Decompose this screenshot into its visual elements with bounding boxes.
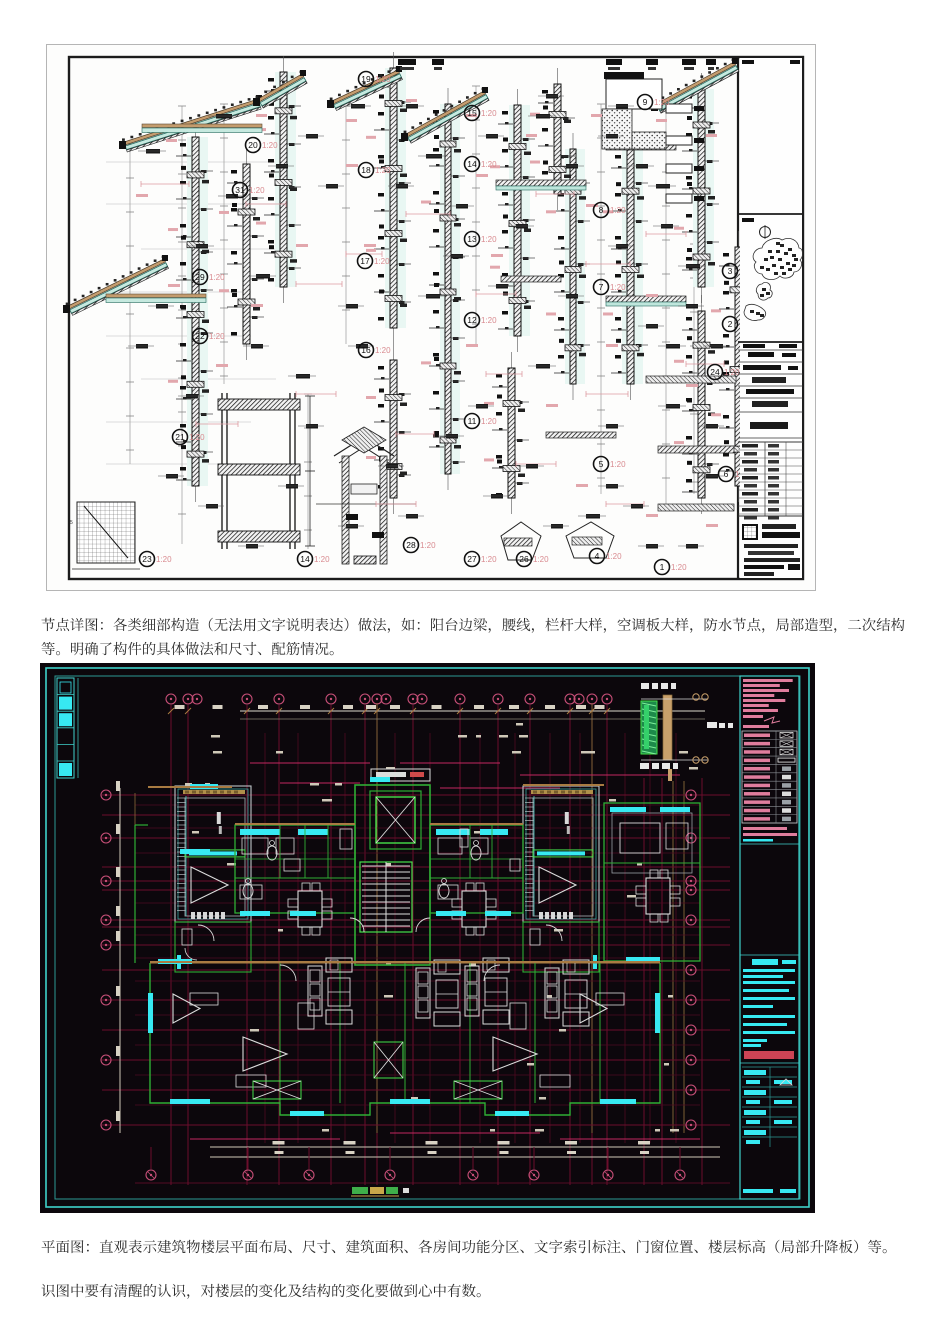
- sheet info table: [742, 1066, 797, 1068]
- sheet inner frame: [69, 57, 803, 579]
- top-right section detail: [640, 683, 733, 781]
- chimney detail: [316, 427, 416, 564]
- detail label 24: [708, 365, 741, 380]
- detail label 6: [719, 467, 752, 482]
- legend table: [742, 731, 797, 823]
- wall section strip at x=652: [674, 73, 719, 303]
- shaft x-box: [374, 1042, 403, 1078]
- slab detail B: [606, 144, 676, 150]
- horizontal guides: [106, 161, 296, 163]
- detail label 18: [359, 163, 392, 178]
- slab detail D: [606, 296, 686, 302]
- detail label 11: [465, 414, 498, 429]
- kitchen right: [430, 825, 523, 913]
- tan wall accents: [235, 823, 355, 825]
- detail label 21: [173, 430, 206, 445]
- detail label 29: [193, 270, 226, 285]
- wall section strip at x=524: [546, 133, 590, 400]
- bed symbol: [539, 867, 576, 903]
- detail label 16: [359, 343, 392, 358]
- wall section strip at x=197: [219, 148, 264, 360]
- detail label 14: [465, 157, 498, 172]
- sheet outer border: [47, 45, 816, 591]
- guide line: [597, 104, 605, 494]
- annotation blobs: [146, 149, 160, 154]
- detail label 20: [246, 138, 279, 153]
- guide line: [472, 86, 480, 344]
- guide line: [178, 106, 186, 544]
- roof slope detail: [401, 87, 489, 143]
- sheet title red: [744, 1051, 794, 1059]
- bath fixtures: [243, 884, 253, 898]
- wardrobe/bed extras: [190, 993, 218, 1005]
- bottom grid bubbles: [146, 1147, 685, 1180]
- revision bars: [740, 954, 799, 956]
- wall section strip at x=652: [674, 295, 719, 514]
- shaft x-box: [253, 1081, 301, 1099]
- detail label 7: [594, 280, 627, 295]
- slab detail G: [546, 432, 616, 438]
- roof slope detail: [63, 255, 169, 315]
- title rows: [738, 349, 803, 351]
- left wing wall: [135, 824, 148, 826]
- roof slope detail: [253, 70, 307, 108]
- guide line: [220, 104, 228, 384]
- foundation detail 9: [606, 79, 662, 109]
- detail label 31: [233, 183, 266, 198]
- room partitions: [235, 825, 523, 878]
- bathroom under right tower: [523, 922, 599, 972]
- guide line: [126, 144, 134, 464]
- lower floor outline: [150, 963, 660, 1115]
- detail label 12: [465, 313, 498, 328]
- title block: [740, 676, 799, 1199]
- central stair core walls: [355, 785, 430, 965]
- left legend ladder: [57, 678, 74, 778]
- roof slope detail: [327, 66, 403, 111]
- title table: [738, 441, 803, 443]
- top grid bubbles: [166, 694, 612, 704]
- plan inner cyan border: [55, 676, 800, 1199]
- company block: [742, 524, 758, 540]
- ladder wall detail: [218, 393, 315, 549]
- eave band: [142, 124, 262, 128]
- detail label 4: [590, 549, 623, 564]
- guide line: [304, 394, 312, 549]
- right wing rooms: [604, 803, 700, 961]
- dining table: [288, 883, 332, 935]
- stair flight: [360, 862, 412, 932]
- sofa group: [545, 960, 589, 1026]
- left dimension line: [119, 788, 121, 1133]
- left grid bubbles: [101, 790, 111, 1130]
- wall section strip at x=399: [421, 88, 465, 490]
- plan outer cyan border: [46, 668, 809, 1207]
- small detail b: [566, 522, 614, 558]
- kitchen left: [235, 825, 355, 913]
- detail label 17: [358, 254, 391, 269]
- guide line: [662, 104, 670, 504]
- vertical grid lines: [171, 705, 702, 1185]
- wall section strip at x=462: [484, 352, 529, 514]
- top dimension line: [240, 710, 705, 712]
- shaft x-box: [376, 797, 415, 843]
- detail sheet image (white CAD drawing): [46, 44, 816, 591]
- detail label 1: [655, 560, 688, 575]
- detail label 8: [594, 203, 627, 218]
- detail label 5: [594, 457, 627, 472]
- wall section strip at x=344: [366, 344, 411, 514]
- detail label 27: [465, 552, 498, 567]
- slab detail C: [658, 446, 734, 453]
- bed symbol: [173, 994, 200, 1023]
- roof slope detail: [651, 58, 739, 113]
- tower core: [523, 786, 599, 922]
- notes pink text: [743, 679, 793, 682]
- stair label box: [371, 769, 430, 781]
- sofa group: [308, 958, 352, 1024]
- detail label 3: [723, 264, 756, 279]
- bed symbol: [580, 994, 607, 1023]
- tower core: [175, 786, 251, 922]
- door swings: [350, 918, 364, 932]
- slab detail F: [501, 276, 561, 282]
- detail label 26: [517, 552, 550, 567]
- bed symbol: [191, 867, 228, 903]
- detail label 19: [359, 72, 392, 87]
- slab detail A: [496, 180, 586, 186]
- bed symbol: [493, 1037, 537, 1071]
- small detail a: [501, 522, 541, 560]
- top edge details: [398, 59, 416, 65]
- wall section strip at x=508: [530, 68, 575, 210]
- wall section strip at x=581: [603, 133, 648, 400]
- detail label 22: [193, 329, 226, 344]
- title block divider: [737, 57, 739, 579]
- dining table: [452, 883, 496, 935]
- detail label 23: [140, 552, 173, 567]
- paragraph: node detail description: [42, 618, 905, 633]
- sofa group: [465, 958, 509, 1024]
- floor plan image (dark CAD drawing): [40, 663, 815, 1213]
- red dimension marks: [136, 194, 148, 197]
- bathroom under left tower: [175, 922, 251, 972]
- wall section strip at x=234: [256, 56, 301, 303]
- wall section strip at x=344: [366, 52, 411, 344]
- horizontal grid lines: [102, 795, 730, 1125]
- right grid bubbles: [686, 790, 696, 1130]
- roof slope detail: [119, 95, 262, 152]
- bottom dimension line: [210, 1146, 720, 1148]
- bright dim segments: [190, 763, 700, 1139]
- shaft x-box: [454, 1081, 502, 1099]
- drawing title bottom: [351, 1187, 409, 1196]
- site key plan: [738, 341, 803, 343]
- white tick texts: [185, 723, 698, 1132]
- bed symbol: [243, 1037, 287, 1071]
- guide line: [342, 106, 350, 344]
- dining table: [636, 870, 680, 922]
- slab detail E: [646, 376, 736, 383]
- tan grid verticals: [377, 703, 684, 1133]
- pink dimension lines: [141, 183, 189, 185]
- paragraph: plan description: [42, 1240, 887, 1254]
- detail label 14: [298, 552, 331, 567]
- guide line: [690, 244, 698, 494]
- detail label 13: [465, 232, 498, 247]
- eave band lower-left: [106, 294, 206, 298]
- wall section strip at x=689: [711, 231, 756, 502]
- right column details: [666, 104, 692, 113]
- detail label 2: [723, 317, 756, 332]
- title block: [738, 58, 803, 578]
- grid chart detail: [77, 502, 135, 563]
- detail label 9: [638, 95, 671, 110]
- detail label 28: [404, 538, 437, 553]
- paragraph: reading note: [42, 1284, 481, 1299]
- sofa group: [416, 960, 460, 1026]
- detail label 15: [465, 106, 498, 121]
- wall section strip at x=468: [490, 89, 535, 352]
- wall section strip at x=146: [168, 121, 213, 502]
